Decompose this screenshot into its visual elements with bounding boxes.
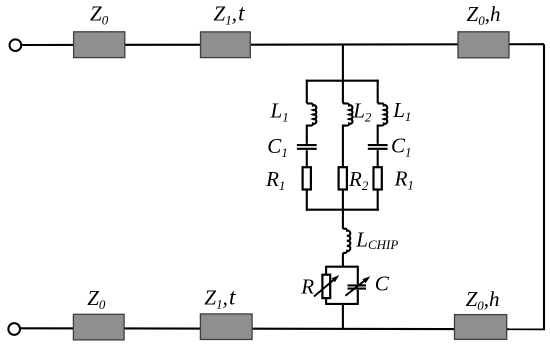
svg-text:Z1,t: Z1,t [204, 285, 236, 312]
svg-text:L1: L1 [392, 98, 411, 124]
svg-text:L1: L1 [270, 98, 289, 124]
svg-text:Z1,t: Z1,t [214, 1, 246, 28]
svg-text:L2: L2 [352, 98, 372, 124]
svg-text:Z0,h: Z0,h [466, 287, 500, 313]
svg-text:R1: R1 [394, 167, 414, 193]
svg-text:C: C [375, 271, 390, 295]
svg-text:LCHIP: LCHIP [355, 227, 398, 251]
svg-text:C1: C1 [267, 134, 288, 160]
svg-text:Z0: Z0 [90, 2, 109, 28]
svg-text:Z0,h: Z0,h [467, 2, 501, 28]
svg-text:R: R [300, 275, 314, 299]
svg-text:R1: R1 [265, 167, 285, 193]
svg-text:Z0: Z0 [87, 286, 106, 312]
svg-text:R2: R2 [348, 167, 369, 193]
svg-text:C1: C1 [391, 134, 412, 160]
